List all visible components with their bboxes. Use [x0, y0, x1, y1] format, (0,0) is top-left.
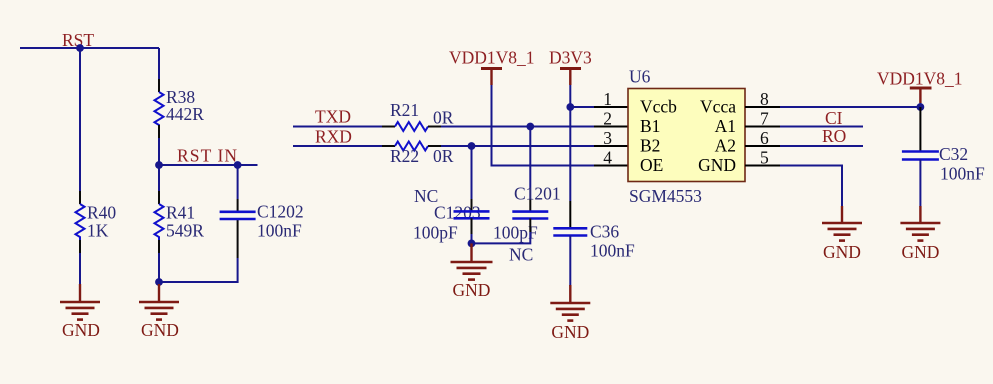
wire D3V3 down to pin1 [569, 85, 571, 107]
junction RST_IN left [155, 161, 163, 169]
svg-text:A2: A2 [715, 136, 736, 156]
junction D3V3 pin1 [566, 103, 574, 111]
svg-text:RST IN: RST IN [177, 146, 237, 166]
ground GND6 under C32 [900, 206, 940, 262]
svg-text:Vccb: Vccb [640, 97, 677, 117]
resistor R21 [390, 100, 454, 131]
pin 1 lead [594, 106, 628, 108]
wire RST_IN down to R41 [158, 165, 160, 191]
wire C1201 bottom to junction [529, 219, 531, 233]
svg-text:NC: NC [509, 245, 533, 265]
resistor R41 [155, 203, 205, 241]
wire pin7 CI [780, 126, 863, 128]
wire pin6 RO [780, 145, 863, 147]
svg-text:Vcca: Vcca [700, 97, 736, 117]
wire C32 to GND [919, 160, 921, 208]
svg-text:R21: R21 [390, 100, 419, 120]
power D3V3 [549, 48, 592, 86]
wire pin1 [570, 106, 594, 108]
svg-text:U6: U6 [629, 67, 651, 87]
wire TXD left [293, 126, 382, 128]
svg-text:GND: GND [62, 320, 100, 340]
junction pin8 VDD [917, 103, 925, 111]
svg-text:100nF: 100nF [257, 221, 302, 241]
pin 4 lead [594, 165, 628, 167]
svg-text:0R: 0R [433, 108, 454, 128]
svg-text:4: 4 [603, 148, 612, 168]
svg-text:R22: R22 [390, 146, 419, 166]
resistor R40 [76, 203, 117, 241]
svg-text:D3V3: D3V3 [549, 48, 592, 68]
svg-text:6: 6 [760, 128, 769, 148]
junction RST_IN at C1202 [234, 161, 242, 169]
svg-text:A1: A1 [715, 116, 736, 136]
svg-text:549R: 549R [166, 221, 204, 241]
svg-text:OE: OE [640, 155, 663, 175]
svg-text:RXD: RXD [315, 127, 352, 147]
wire RXD right to pin3 [428, 145, 441, 147]
svg-text:100nF: 100nF [590, 241, 635, 261]
wire pin5 to GND [780, 166, 842, 208]
junction TXD at C1201 [526, 123, 534, 131]
wire R41 to bottom junction [158, 240, 160, 253]
svg-text:442R: 442R [166, 104, 204, 124]
capacitor C1202 [220, 165, 304, 241]
resistor R22 [390, 142, 454, 167]
wire R40 to GND [79, 240, 81, 253]
op-amp U6 SGM4553 body [628, 67, 745, 207]
wire VDD1V8_1 to OE [492, 85, 595, 166]
svg-text:C36: C36 [590, 222, 619, 242]
capacitor C1203 [413, 146, 490, 243]
svg-text:GND: GND [901, 242, 939, 262]
pin 5 lead [745, 165, 780, 167]
resistor R38 [155, 87, 205, 127]
svg-text:C1201: C1201 [514, 184, 561, 204]
wire R38 to RST_IN [158, 125, 160, 138]
svg-text:100pF: 100pF [413, 223, 458, 243]
svg-text:B2: B2 [640, 136, 660, 156]
svg-text:GND: GND [453, 280, 491, 300]
svg-text:100nF: 100nF [940, 164, 985, 184]
svg-text:C1202: C1202 [257, 202, 304, 222]
capacitor C32 [902, 107, 985, 184]
pin 3 lead [594, 145, 628, 147]
power VDD1V8_1 right [877, 69, 963, 108]
wire C1203 bottom [471, 218, 473, 234]
wire D3V3 down to C36 [569, 107, 571, 201]
capacitor C36 [553, 201, 635, 261]
wire pin8 to VDD [780, 106, 920, 108]
capacitor C1201 [493, 127, 561, 243]
ground GND4 under C36 [550, 285, 590, 342]
svg-text:GND: GND [551, 322, 589, 342]
wire C36 to GND [569, 236, 571, 287]
svg-text:TXD: TXD [315, 107, 351, 127]
svg-text:SGM4553: SGM4553 [629, 186, 702, 206]
junction RXD at C1203 [468, 142, 476, 150]
svg-text:RO: RO [822, 126, 846, 146]
svg-text:1: 1 [603, 89, 612, 109]
power VDD1V8_1 mid [449, 48, 535, 86]
wire bottom horizontal to C1202 [159, 258, 238, 282]
junction C1203 GND [468, 240, 476, 248]
svg-text:0R: 0R [433, 146, 454, 166]
wire RST down to R38 [158, 48, 160, 79]
pin 8 lead [745, 106, 780, 108]
junction RST [76, 44, 84, 52]
pin 7 lead [745, 126, 780, 128]
svg-text:B1: B1 [640, 116, 660, 136]
svg-text:VDD1V8_1: VDD1V8_1 [877, 69, 963, 89]
svg-text:R41: R41 [166, 203, 195, 223]
junction bottom left [155, 278, 163, 286]
wire TXD right to pin2 [428, 126, 441, 128]
ground GND1 under R40 [60, 284, 100, 340]
svg-text:7: 7 [760, 109, 769, 129]
wire RXD left [293, 145, 382, 147]
ground GND2 under R41 [139, 284, 179, 340]
svg-text:CI: CI [825, 108, 843, 128]
ground GND5 pin5 [822, 206, 862, 262]
wire RST down to R40 [79, 48, 81, 191]
ground GND3 under C1203 [451, 243, 493, 300]
svg-text:GND: GND [823, 242, 861, 262]
svg-text:5: 5 [760, 148, 769, 168]
wire RST_IN horizontal [159, 164, 258, 166]
svg-text:2: 2 [603, 109, 612, 129]
svg-text:1K: 1K [87, 221, 109, 241]
svg-text:8: 8 [760, 89, 769, 109]
svg-text:R40: R40 [87, 203, 116, 223]
svg-text:VDD1V8_1: VDD1V8_1 [449, 48, 535, 68]
svg-text:GND: GND [698, 155, 736, 175]
pin 6 lead [745, 145, 780, 147]
wire RST horizontal [20, 47, 159, 49]
svg-text:3: 3 [603, 128, 612, 148]
svg-text:C32: C32 [939, 144, 968, 164]
svg-text:GND: GND [141, 320, 179, 340]
pin 2 lead [594, 126, 628, 128]
